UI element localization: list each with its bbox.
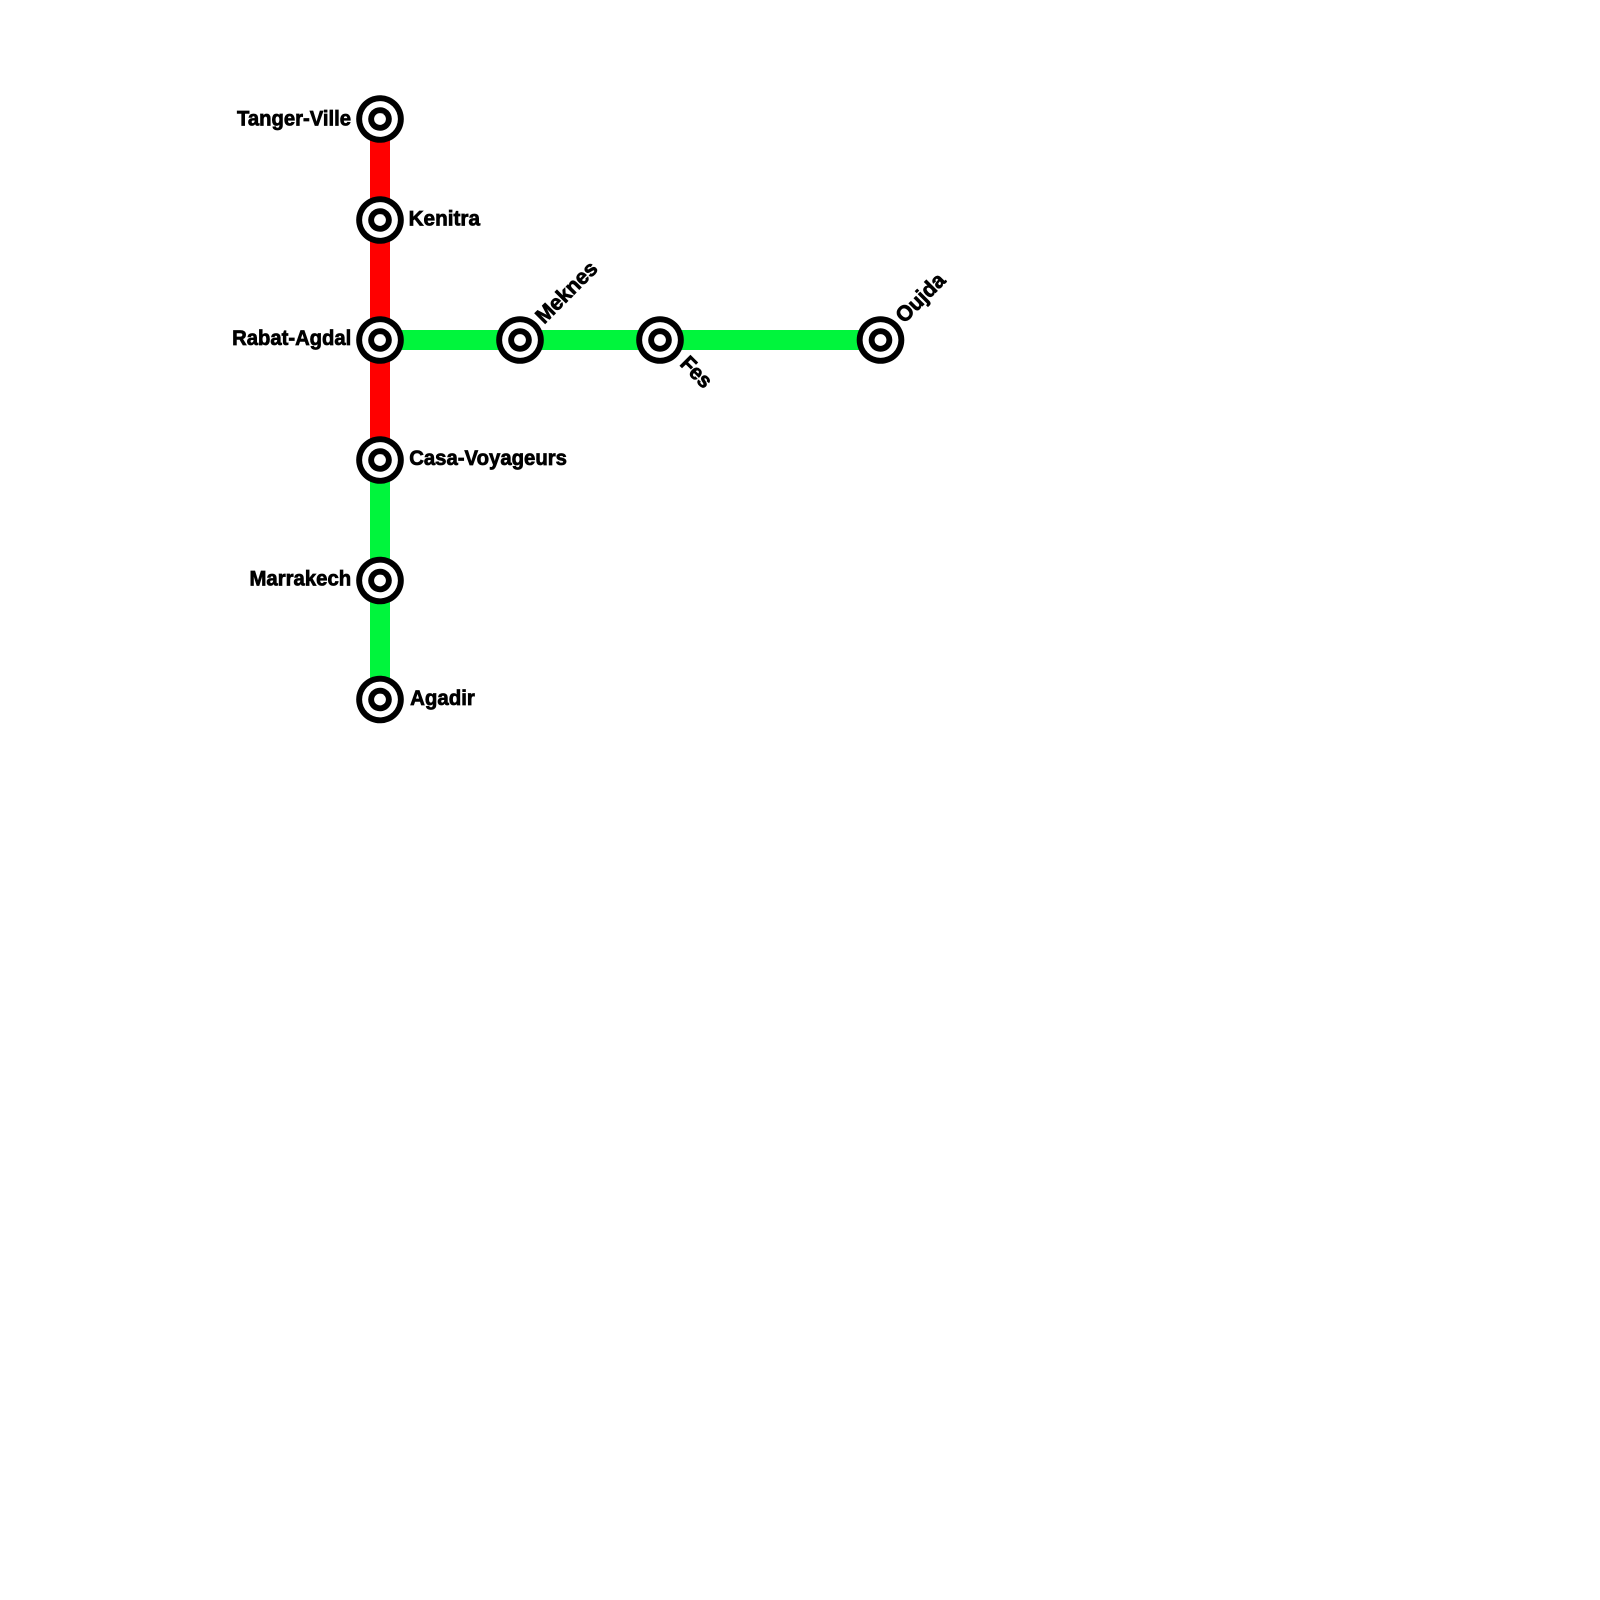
wire red line Tanger-Ville to Casa-Voyageurs [370,119,390,460]
svg-text:Rabat-Agdal: Rabat-Agdal [232,326,351,350]
station Agadir [356,676,404,724]
svg-text:Casa-Voyageurs: Casa-Voyageurs [409,446,567,470]
wire green line Casa-Voyageurs to Agadir [370,460,390,700]
svg-text:Kenitra: Kenitra [409,207,481,231]
svg-text:Tanger-Ville: Tanger-Ville [237,106,351,130]
svg-text:Marrakech: Marrakech [250,567,352,591]
station Kenitra [356,196,404,244]
station Rabat-Agdal [356,316,404,364]
station Fes [636,316,684,364]
station Tanger-Ville [356,95,404,143]
svg-text:Agadir: Agadir [410,686,475,710]
station Casa-Voyageurs [356,436,404,484]
station Oujda [857,316,905,364]
station Meknes [496,316,544,364]
wire green line Rabat-Agdal to Oujda [380,330,881,350]
station Marrakech [356,557,404,605]
